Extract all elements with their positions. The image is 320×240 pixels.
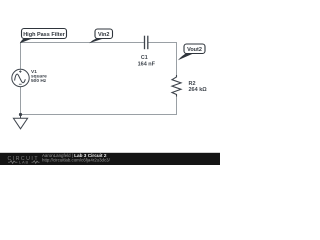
- svg-text:C1: C1: [141, 55, 148, 61]
- svg-text:164 nF: 164 nF: [138, 62, 156, 68]
- svg-text:High Pass Filter: High Pass Filter: [23, 32, 65, 38]
- svg-text:Vin2: Vin2: [98, 32, 110, 38]
- svg-text:LAB: LAB: [19, 160, 29, 165]
- svg-text:500 Hz: 500 Hz: [31, 78, 47, 84]
- svg-text:264 kΩ: 264 kΩ: [189, 87, 208, 93]
- svg-text:http://circuitlab.com/c6fja4r2: http://circuitlab.com/c6fja4r2u3dc3/: [42, 157, 111, 162]
- svg-text:R2: R2: [189, 81, 196, 87]
- svg-text:Vout2: Vout2: [187, 47, 202, 53]
